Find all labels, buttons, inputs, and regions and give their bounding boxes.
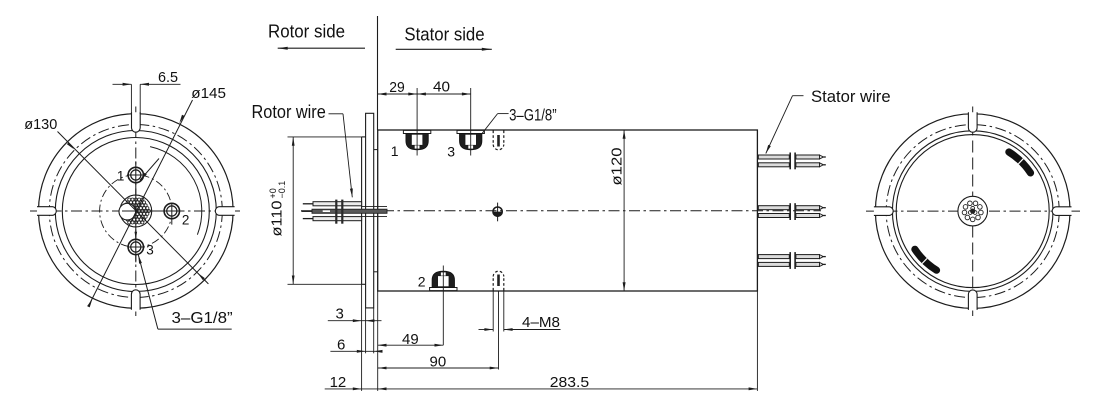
svg-text:3: 3: [146, 243, 154, 258]
svg-text:4–M8: 4–M8: [522, 314, 560, 331]
svg-text:Rotor wire: Rotor wire: [252, 102, 326, 122]
svg-text:12: 12: [330, 374, 347, 391]
svg-text:29: 29: [389, 79, 405, 96]
svg-text:ø110: ø110: [269, 201, 286, 237]
svg-text:1: 1: [391, 143, 399, 159]
svg-text:ø145: ø145: [191, 85, 226, 102]
svg-text:ø130: ø130: [24, 116, 57, 133]
svg-text:Rotor side: Rotor side: [268, 20, 345, 41]
svg-text:3–G1/8”: 3–G1/8”: [172, 310, 233, 327]
svg-text:3: 3: [336, 306, 344, 323]
svg-text:2: 2: [418, 274, 426, 290]
svg-text:6.5: 6.5: [158, 69, 178, 86]
svg-text:49: 49: [402, 331, 419, 348]
svg-text:Stator side: Stator side: [404, 24, 484, 45]
svg-text:1: 1: [117, 168, 125, 183]
svg-text:6: 6: [337, 337, 345, 354]
svg-text:−0.1: −0.1: [277, 181, 287, 199]
svg-text:Stator wire: Stator wire: [811, 87, 891, 106]
svg-text:90: 90: [430, 354, 447, 371]
svg-text:40: 40: [433, 79, 450, 96]
svg-text:2: 2: [182, 212, 190, 227]
svg-text:ø120: ø120: [608, 148, 625, 186]
svg-text:283.5: 283.5: [550, 374, 589, 391]
svg-text:3: 3: [447, 143, 455, 159]
svg-text:3–G1/8”: 3–G1/8”: [509, 106, 557, 125]
